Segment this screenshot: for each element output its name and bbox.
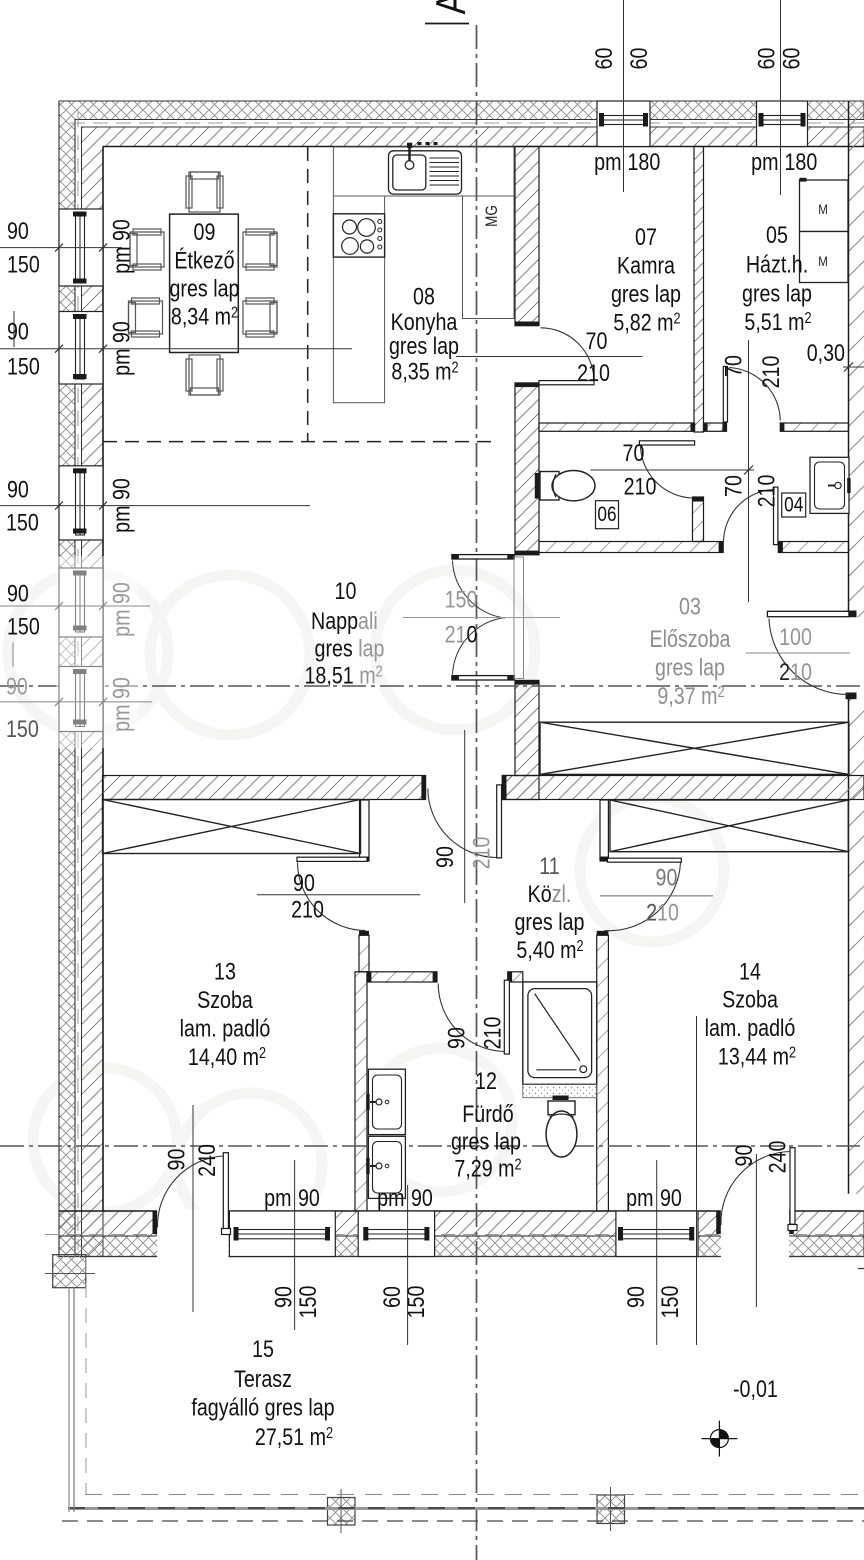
svg-text:07: 07 bbox=[635, 223, 657, 250]
nappali double door leaf lower bbox=[452, 676, 514, 680]
door kamra 70/210 leaf bbox=[539, 381, 594, 385]
svg-text:27,51 m2: 27,51 m2 bbox=[255, 1423, 333, 1450]
svg-text:gres lap: gres lap bbox=[451, 1128, 521, 1155]
svg-text:90: 90 bbox=[270, 1286, 297, 1308]
wardrobe with X room 14 bbox=[610, 800, 848, 852]
svg-text:210: 210 bbox=[757, 356, 784, 389]
svg-text:210: 210 bbox=[779, 658, 812, 685]
interior wall WC top / kamra bottom bbox=[539, 423, 695, 431]
svg-text:180: 180 bbox=[785, 148, 818, 175]
exterior wall right bbox=[849, 101, 864, 1194]
south wall door openings (white) bbox=[157, 1210, 228, 1259]
svg-text:210: 210 bbox=[479, 1017, 506, 1050]
svg-text:150: 150 bbox=[294, 1286, 321, 1319]
entrance door dim line bbox=[746, 652, 851, 654]
svg-text:240: 240 bbox=[193, 1144, 220, 1177]
svg-text:gres lap: gres lap bbox=[515, 908, 585, 935]
svg-text:Nappali: Nappali bbox=[311, 607, 378, 634]
svg-text:14,40 m2: 14,40 m2 bbox=[188, 1043, 266, 1070]
svg-text:gres lap: gres lap bbox=[655, 654, 725, 681]
wardrobe with X nappali bbox=[103, 800, 361, 854]
WC toilet bbox=[535, 473, 540, 499]
svg-text:210: 210 bbox=[291, 896, 324, 923]
window házt.h. (top, pm 180) bbox=[757, 101, 808, 147]
chairs bbox=[129, 172, 278, 395]
svg-text:gres lap: gres lap bbox=[742, 280, 812, 307]
svg-text:90: 90 bbox=[411, 1184, 433, 1211]
shower step stipple bbox=[523, 1084, 597, 1097]
entrance door 100/210 leaf bbox=[767, 611, 849, 616]
svg-text:150: 150 bbox=[7, 251, 40, 278]
svg-text:210: 210 bbox=[445, 621, 478, 648]
svg-text:A: A bbox=[428, 0, 475, 14]
kitchen counter top (sink run) bbox=[333, 147, 514, 196]
svg-text:M: M bbox=[818, 201, 828, 217]
entrance door arc bbox=[769, 619, 848, 695]
interior wall segment házt.h bottom right bbox=[780, 423, 848, 431]
svg-text:14: 14 bbox=[739, 958, 761, 985]
section line A vertical bbox=[476, 25, 478, 1560]
room number box 04 bbox=[782, 493, 806, 517]
facade dashed line in south wall bbox=[45, 1234, 864, 1236]
svg-text:70: 70 bbox=[720, 355, 747, 377]
stove bbox=[333, 214, 384, 257]
door WC arc bbox=[641, 447, 693, 499]
kitchen sink unit bbox=[389, 151, 462, 194]
svg-text:90: 90 bbox=[7, 476, 29, 503]
left margin dim line window1 bbox=[0, 247, 122, 249]
window south 2 (fürdö, pm 90) bbox=[358, 1211, 434, 1257]
svg-text:09: 09 bbox=[194, 218, 216, 245]
interior wall between kamra and házt.h. bbox=[694, 147, 704, 433]
terasz door right arc bbox=[721, 1152, 790, 1226]
wall gap dashed line top bbox=[70, 122, 864, 124]
terasz post bottom 1 bbox=[328, 1489, 356, 1533]
nappali door reveal lines bbox=[514, 557, 524, 679]
level marker -0,01 bbox=[702, 1421, 738, 1457]
svg-text:60: 60 bbox=[778, 48, 805, 70]
svg-text:11: 11 bbox=[539, 852, 559, 879]
svg-text:pm 90: pm 90 bbox=[108, 478, 135, 533]
door fürdö 90/210 leaf bbox=[504, 980, 509, 1054]
extra long leader room14 bbox=[696, 1016, 698, 1345]
exterior wall top: inner masonry band bbox=[82, 127, 864, 1257]
svg-text:180: 180 bbox=[627, 148, 660, 175]
terasz door right hinge cap bbox=[788, 1225, 797, 1231]
south window leader room13 bbox=[294, 1160, 296, 1330]
svg-text:90: 90 bbox=[660, 1184, 682, 1211]
0,30 dim line + tick bbox=[843, 366, 864, 368]
svg-text:60: 60 bbox=[625, 48, 652, 70]
dishwasher MG box bbox=[463, 196, 515, 319]
svg-text:pm 90: pm 90 bbox=[108, 219, 135, 274]
svg-text:Étkező: Étkező bbox=[174, 247, 234, 274]
fürdő east wall bbox=[597, 935, 609, 1211]
svg-text:90: 90 bbox=[622, 1286, 649, 1308]
section line horizontal mid bbox=[0, 685, 864, 687]
svg-text:lam. padló: lam. padló bbox=[180, 1015, 271, 1042]
svg-text:10: 10 bbox=[335, 577, 357, 604]
nappali double door arcs bbox=[453, 561, 506, 675]
svg-text:70: 70 bbox=[586, 327, 608, 354]
nappali double door dim line bbox=[403, 617, 560, 619]
svg-text:Terasz: Terasz bbox=[234, 1365, 292, 1392]
svg-text:150: 150 bbox=[7, 613, 40, 640]
svg-text:pm 90: pm 90 bbox=[108, 582, 135, 637]
interior wall 04 bottom right part bbox=[778, 542, 848, 553]
svg-text:9,37 m2: 9,37 m2 bbox=[657, 682, 724, 709]
room 03 elöszoba label (washed) bbox=[650, 593, 732, 710]
partition room14/közl above door bbox=[600, 800, 608, 861]
svg-text:M: M bbox=[818, 253, 828, 269]
svg-text:240: 240 bbox=[764, 1141, 791, 1174]
nappali double door 150/210 leaf upper bbox=[452, 555, 514, 559]
svg-text:pm: pm bbox=[626, 1184, 653, 1211]
házt.h/04 doors dim leader bbox=[748, 340, 750, 602]
door room14 90/210 leaf bbox=[608, 858, 682, 862]
svg-text:pm: pm bbox=[751, 148, 778, 175]
svg-text:05: 05 bbox=[766, 221, 788, 248]
room04 washbasin bbox=[810, 457, 851, 513]
door room14 arc bbox=[605, 863, 681, 931]
left margin dim line window2 bbox=[0, 348, 352, 350]
svg-text:210: 210 bbox=[646, 899, 679, 926]
left dim chain connectors bbox=[13, 311, 15, 347]
window left 2 (étkezö, pm 90) bbox=[59, 312, 103, 385]
room13 door dim line bbox=[257, 894, 420, 896]
svg-text:06: 06 bbox=[597, 504, 616, 527]
svg-text:gres lap: gres lap bbox=[611, 280, 681, 307]
svg-text:90: 90 bbox=[6, 673, 28, 700]
door room13 arc bbox=[298, 863, 366, 931]
interior wall WC+04 bottom (elöszoba north) left part bbox=[539, 542, 723, 553]
kitchen counter left (stove run) bbox=[333, 196, 384, 403]
door room04 70/210 leaf bbox=[774, 487, 778, 544]
svg-text:210: 210 bbox=[624, 473, 657, 500]
svg-text:MG: MG bbox=[483, 205, 502, 227]
window left 1 (étkezö, pm 90) bbox=[59, 209, 103, 286]
svg-text:100: 100 bbox=[779, 623, 812, 650]
svg-text:13,44 m2: 13,44 m2 bbox=[718, 1043, 796, 1070]
svg-text:pm: pm bbox=[264, 1184, 291, 1211]
svg-text:13: 13 bbox=[214, 958, 236, 985]
terasz corner post left bbox=[45, 1255, 95, 1288]
interior wall kitchen-east middle (WC left) bbox=[515, 383, 539, 555]
door room13 90/210 leaf bbox=[297, 857, 367, 861]
small tick right edge bbox=[858, 1268, 864, 1270]
left margin dim line window4 bbox=[0, 605, 150, 607]
terasz door right 90/240 leaf bbox=[790, 1148, 795, 1225]
svg-text:Szoba: Szoba bbox=[722, 986, 778, 1013]
svg-text:04: 04 bbox=[784, 494, 803, 517]
svg-text:5,40 m2: 5,40 m2 bbox=[516, 936, 583, 963]
interior wall kitchen-east lower (below double door) bbox=[515, 680, 539, 775]
svg-text:70: 70 bbox=[623, 439, 645, 466]
partition room13/közl above door (wardrobe side line) bbox=[360, 800, 370, 861]
svg-text:lam. padló: lam. padló bbox=[705, 1014, 796, 1041]
shower bbox=[523, 982, 597, 1084]
watermark wash over left windows 4+5 bbox=[56, 556, 138, 748]
wall gap dashed line left bbox=[77, 112, 79, 1250]
svg-text:8,34 m2: 8,34 m2 bbox=[171, 303, 238, 330]
interior wall közl north / room14 north (right of door) bbox=[502, 776, 864, 800]
svg-text:Fürdő: Fürdő bbox=[462, 1100, 513, 1127]
svg-text:60: 60 bbox=[753, 48, 780, 70]
door nappali-közl 90/210 leaf bbox=[497, 785, 502, 858]
svg-text:90: 90 bbox=[656, 864, 678, 891]
interior wall kitchen-east upper (kamra side) bbox=[515, 147, 539, 326]
room14 door dim line bbox=[600, 895, 713, 897]
svg-text:15: 15 bbox=[252, 1335, 274, 1362]
svg-text:210: 210 bbox=[468, 837, 495, 870]
interior face line south bbox=[59, 1210, 864, 1212]
fürdő west wall bbox=[355, 972, 367, 1211]
sink faucet bbox=[407, 143, 412, 148]
fürdö toilet bbox=[548, 1101, 575, 1115]
window left 4 (nappali, pm 90, washed) bbox=[59, 568, 103, 637]
svg-text:Közl.: Közl. bbox=[528, 880, 572, 907]
south window leader fürdö bbox=[407, 1185, 409, 1345]
exterior wall south: insulation crosshatch band bbox=[59, 1236, 864, 1257]
top window leader házt.h. bbox=[780, 0, 782, 195]
section line horizontal lower bbox=[0, 1145, 864, 1147]
svg-text:0,30: 0,30 bbox=[807, 339, 845, 366]
svg-text:5,51 m2: 5,51 m2 bbox=[744, 308, 811, 335]
door házt.h. 70/210 leaf bbox=[723, 367, 727, 423]
svg-text:pm: pm bbox=[377, 1184, 404, 1211]
svg-text:90: 90 bbox=[298, 1184, 320, 1211]
exterior wall south: masonry band bbox=[59, 1211, 864, 1236]
terasz door leader right bbox=[755, 1154, 757, 1307]
fürdő north wall left segment bbox=[367, 972, 437, 982]
svg-text:90: 90 bbox=[443, 1027, 470, 1049]
svg-text:210: 210 bbox=[753, 475, 780, 508]
svg-text:5,82 m2: 5,82 m2 bbox=[613, 309, 680, 336]
window left 3 (nappali, pm 90) bbox=[59, 466, 103, 540]
svg-text:70: 70 bbox=[720, 475, 747, 497]
left dim ticks bbox=[55, 244, 107, 706]
svg-text:90: 90 bbox=[730, 1145, 757, 1167]
svg-text:150: 150 bbox=[7, 353, 40, 380]
dashed room divider konyha+étkezö/nappali bbox=[103, 441, 491, 443]
svg-text:fagyálló gres lap: fagyálló gres lap bbox=[191, 1394, 334, 1421]
washing machine 1 bbox=[800, 180, 849, 232]
south outer edge line bbox=[59, 1256, 864, 1258]
svg-text:gres lap: gres lap bbox=[315, 635, 385, 662]
svg-text:08: 08 bbox=[413, 283, 435, 310]
svg-text:gres lap: gres lap bbox=[389, 332, 459, 359]
svg-text:18,51 m2: 18,51 m2 bbox=[304, 662, 382, 689]
interior wall segment házt.h bottom left bbox=[704, 423, 727, 431]
svg-text:Szoba: Szoba bbox=[197, 986, 253, 1013]
interior face line top bbox=[103, 146, 864, 148]
svg-text:pm: pm bbox=[594, 148, 621, 175]
window south 1 (room13/terasz, pm 90) bbox=[229, 1211, 335, 1257]
svg-text:90: 90 bbox=[163, 1149, 190, 1171]
svg-text:150: 150 bbox=[445, 586, 478, 613]
svg-text:150: 150 bbox=[6, 509, 39, 536]
watermark (faint) bbox=[8, 570, 724, 1237]
door WC 70/210 leaf bbox=[639, 441, 694, 445]
svg-text:90: 90 bbox=[7, 318, 29, 345]
svg-text:pm 90: pm 90 bbox=[108, 677, 135, 732]
door nappali-közl arc bbox=[428, 789, 497, 858]
exterior wall top: insulation crosshatch band bbox=[59, 101, 864, 1257]
window kamra (top, pm 180) bbox=[597, 101, 650, 147]
kamra door dim line bbox=[456, 356, 643, 358]
svg-text:150: 150 bbox=[656, 1286, 683, 1319]
svg-text:150: 150 bbox=[402, 1286, 429, 1319]
svg-text:Előszoba: Előszoba bbox=[650, 625, 732, 652]
svg-text:60: 60 bbox=[590, 48, 617, 70]
door fürdö arc bbox=[438, 984, 504, 1052]
svg-text:150: 150 bbox=[6, 715, 39, 742]
interior face line left bbox=[102, 147, 104, 1212]
section A marker line bbox=[425, 23, 469, 25]
wall pilaster at elöszoba SW corner bbox=[502, 776, 539, 800]
dining table bbox=[170, 214, 239, 352]
door jamb caps bbox=[153, 322, 857, 1235]
svg-text:8,35 m2: 8,35 m2 bbox=[391, 358, 458, 385]
fürdö washbasin 1 bbox=[366, 1069, 405, 1134]
south window leader room14 bbox=[656, 1160, 658, 1345]
svg-text:12: 12 bbox=[475, 1067, 497, 1094]
svg-text:7,29 m2: 7,29 m2 bbox=[454, 1155, 521, 1182]
window left 5 (nappali, pm 90, washed) bbox=[59, 667, 103, 732]
svg-text:90: 90 bbox=[431, 846, 458, 868]
partition room13/közl below door bbox=[359, 935, 369, 972]
door room04 arc bbox=[724, 490, 773, 542]
fürdö washbasin 2 bbox=[366, 1136, 405, 1198]
svg-text:90: 90 bbox=[293, 869, 315, 896]
room number box 06 bbox=[596, 501, 619, 529]
svg-text:90: 90 bbox=[7, 217, 29, 244]
svg-text:gres lap: gres lap bbox=[170, 275, 240, 302]
washing machine 2 bbox=[800, 232, 849, 283]
terasz door left arc bbox=[157, 1156, 223, 1228]
terasz railing bottom bbox=[68, 1507, 864, 1510]
terasz railing left bbox=[68, 1288, 70, 1512]
fürdő north wall right stub bbox=[508, 972, 523, 982]
terasz post bottom 2 bbox=[597, 1487, 625, 1531]
svg-text:210: 210 bbox=[577, 359, 610, 386]
entrance opening white gap in right wall bbox=[845, 617, 864, 695]
svg-text:Házt.h.: Házt.h. bbox=[746, 251, 808, 278]
svg-text:Kamra: Kamra bbox=[617, 252, 676, 279]
interior wall nappali south (left of door) bbox=[103, 776, 426, 800]
left margin dim line window3 bbox=[0, 505, 310, 507]
svg-text:-0,01: -0,01 bbox=[733, 1375, 778, 1402]
interior face line right bbox=[848, 101, 850, 1194]
wardrobe with X elöszoba bbox=[540, 722, 849, 774]
top window leader kamra bbox=[623, 0, 625, 192]
nappali-közl door dim leader bbox=[464, 730, 466, 903]
WC door dim line bbox=[590, 469, 754, 471]
svg-text:pm 90: pm 90 bbox=[108, 321, 135, 376]
interior wall WC/04 divider bbox=[693, 497, 704, 542]
door kamra arc bbox=[541, 328, 595, 382]
dashed room divider étkezö/konyha bbox=[307, 147, 309, 442]
terasz door leader left bbox=[192, 1105, 194, 1312]
left margin dim line window5 bbox=[0, 701, 152, 703]
window south 3 (room14, pm 90) bbox=[616, 1211, 698, 1257]
svg-text:03: 03 bbox=[679, 593, 701, 620]
door házt.h. arc bbox=[729, 368, 780, 421]
terasz door left hinge cap bbox=[222, 1229, 231, 1235]
terasz door left 90/240 leaf bbox=[223, 1153, 228, 1229]
svg-text:90: 90 bbox=[7, 580, 29, 607]
